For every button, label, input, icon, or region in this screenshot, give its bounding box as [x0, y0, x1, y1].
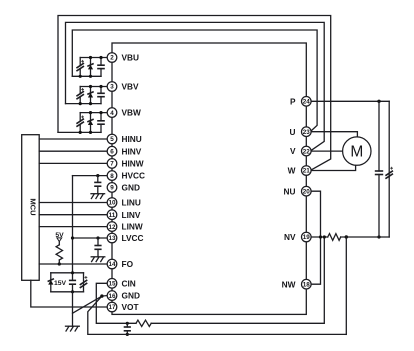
- svg-text:CIN: CIN: [122, 278, 136, 288]
- capacitor electrolytic C5 (VBW bootstrap): [76, 113, 84, 133]
- pin 12 LINW: [107, 222, 117, 232]
- svg-text:10: 10: [108, 200, 116, 207]
- svg-text:VBW: VBW: [122, 108, 142, 118]
- svg-text:7: 7: [110, 161, 114, 168]
- pin 8 HVCC: [107, 171, 117, 181]
- junction dots VBU group: [79, 56, 103, 78]
- capacitor electrolytic C1 (VBU bootstrap): [76, 58, 84, 77]
- wire shunt to power ground rail: [345, 237, 347, 334]
- svg-text:HINW: HINW: [122, 159, 144, 169]
- wire FO (MCU to pin 14): [39, 263, 107, 265]
- wire LINW (MCU to pin 12): [39, 226, 107, 228]
- wire NV shunt line right: [341, 236, 390, 238]
- svg-text:LVCC: LVCC: [122, 233, 144, 243]
- svg-text:9: 9: [110, 185, 114, 192]
- svg-text:GND: GND: [122, 183, 140, 193]
- svg-text:NV: NV: [284, 232, 296, 242]
- svg-text:VBV: VBV: [122, 82, 140, 92]
- svg-text:V: V: [290, 146, 296, 156]
- node FO pull-up junction: [58, 262, 61, 265]
- capacitor C8 (LVCC decoupling): [94, 238, 101, 257]
- svg-text:11: 11: [109, 212, 116, 219]
- wire U phase (pin 23 to motor): [311, 132, 357, 137]
- svg-text:8: 8: [110, 173, 114, 180]
- svg-text:MCU: MCU: [28, 198, 37, 216]
- svg-text:15: 15: [108, 281, 116, 288]
- wire VBW group bottom rail: [58, 131, 101, 133]
- svg-text:21: 21: [303, 168, 311, 175]
- pin 2 VBU: [107, 53, 117, 63]
- wire LINV (MCU to pin 11): [39, 214, 107, 216]
- svg-text:W: W: [288, 166, 296, 176]
- svg-text:LINW: LINW: [122, 222, 143, 232]
- pin 19 NV: [302, 232, 312, 242]
- capacitor C4 (VBV bootstrap): [97, 87, 105, 104]
- 15V source bottom rail: [51, 291, 84, 293]
- svg-text:HVCC: HVCC: [122, 171, 146, 181]
- MCU block: [22, 135, 40, 281]
- pin 6 HINV: [107, 146, 117, 156]
- svg-text:U: U: [290, 127, 296, 137]
- svg-text:13: 13: [108, 235, 116, 242]
- pin 14 FO: [107, 259, 117, 269]
- pin 21 W: [302, 166, 312, 176]
- svg-text:VBU: VBU: [122, 53, 140, 63]
- junction dots VBW group: [79, 111, 103, 134]
- svg-text:16: 16: [108, 293, 116, 300]
- svg-text:VOT: VOT: [122, 302, 139, 312]
- wire LVCC (pin 13 to 15V rail): [73, 237, 108, 239]
- wire VBV group bottom rail: [66, 103, 102, 105]
- svg-text:GND: GND: [122, 291, 140, 301]
- pin 11 LINV: [107, 210, 117, 220]
- wire P bus (pin 24 to DC bus): [311, 100, 389, 102]
- pin 17 VOT: [107, 302, 117, 312]
- svg-text:23: 23: [303, 129, 311, 136]
- capacitor C9 (15V source): [69, 273, 76, 292]
- node 15V box bottom junction: [71, 290, 74, 293]
- svg-text:HINV: HINV: [122, 146, 142, 156]
- ground (HVCC decoupling): [91, 194, 105, 199]
- capacitor electrolytic C10 (15V source): [80, 273, 88, 292]
- svg-text:LINV: LINV: [122, 210, 141, 220]
- wire NU-NW tie (pin 20 to pin 18): [311, 191, 320, 284]
- capacitor electrolytic C13 (DC bus): [385, 101, 393, 237]
- wire CIN sense to shunt junction: [151, 237, 324, 323]
- wire VBU group bottom rail: [72, 75, 101, 77]
- wire HINV (MCU to pin 6): [39, 150, 107, 152]
- node bus cap top junction: [377, 100, 380, 103]
- pin 4 VBW: [107, 108, 117, 118]
- wire pin 16 stub: [102, 295, 107, 298]
- svg-text:15V: 15V: [54, 280, 67, 287]
- resistor R1 (FO pull-up): [56, 242, 62, 265]
- pin 15 CIN: [107, 279, 117, 289]
- pin 22 V: [302, 146, 312, 156]
- capacitor C6 (VBW bootstrap): [97, 113, 105, 133]
- node bus cap bottom junction: [377, 235, 380, 238]
- wire 15V source to ground: [72, 292, 74, 326]
- svg-text:3: 3: [110, 84, 114, 91]
- zener diode D4 15V: [48, 273, 54, 292]
- 15V source top rail: [51, 272, 84, 274]
- pin 5 HINU: [107, 134, 117, 144]
- svg-text:22: 22: [303, 148, 311, 155]
- svg-text:17: 17: [108, 304, 116, 311]
- wire HVCC (pin 8 to 15V rail): [73, 175, 108, 177]
- pin 10 LINU: [107, 198, 117, 208]
- ground (LVCC decoupling): [91, 257, 105, 262]
- wire W phase (pin 21 to motor): [311, 165, 356, 170]
- capacitor C11 (CIN filter): [124, 323, 131, 334]
- svg-text:5: 5: [110, 136, 114, 143]
- wire VBV group top rail: [80, 86, 107, 88]
- capacitor C12 (DC bus snubber): [375, 101, 383, 237]
- pin 24 P: [302, 97, 312, 107]
- capacitor C7 (HVCC decoupling): [94, 176, 101, 194]
- node CIN riser on NV line: [323, 235, 326, 238]
- wire bootstrap V return (VBV group bottom to pin 22 V): [66, 22, 325, 151]
- IPM package outline U1: [112, 43, 306, 314]
- svg-text:P: P: [290, 96, 296, 106]
- node LVCC rail junction: [71, 236, 74, 239]
- svg-text:12: 12: [108, 224, 116, 231]
- wire CIN sense (pin 15 left, down, right to shunt riser): [96, 283, 136, 323]
- node shunt right junction: [345, 235, 348, 238]
- svg-text:4: 4: [110, 110, 114, 117]
- node 15V box top junction: [71, 271, 74, 274]
- node GND star point: [100, 294, 103, 297]
- node NU tie on NV line: [319, 235, 322, 238]
- svg-text:2: 2: [110, 55, 114, 62]
- wire HINU (MCU to pin 5): [39, 138, 107, 140]
- zener diode D1 (VBU bootstrap): [87, 58, 93, 77]
- svg-text:FO: FO: [122, 259, 134, 269]
- wire VBU group top rail: [80, 57, 107, 59]
- wire HINW (MCU to pin 7): [39, 162, 107, 164]
- svg-text:NW: NW: [282, 279, 296, 289]
- svg-text:M: M: [350, 144, 363, 161]
- node CIN filter cap bottom: [126, 333, 129, 336]
- wire LINU (MCU to pin 10): [39, 202, 107, 204]
- svg-text:14: 14: [108, 261, 116, 268]
- svg-text:24: 24: [303, 99, 311, 106]
- wire power ground rail: [88, 296, 347, 334]
- wire bootstrap W return (VBW group bottom to pin 21 W): [58, 16, 331, 171]
- capacitor C2 (VBU bootstrap): [97, 58, 105, 77]
- wire V phase (pin 22 to motor): [311, 150, 343, 152]
- resistor R3 shunt: [328, 234, 341, 241]
- svg-text:LINU: LINU: [122, 198, 141, 208]
- pin 7 HINW: [107, 159, 117, 169]
- pin 3 VBV: [107, 82, 117, 92]
- wire 15V supply rail (HVCC/LVCC down to 15V source): [72, 176, 74, 273]
- pin 16 GND: [107, 291, 117, 301]
- zener diode D3 (VBW bootstrap): [87, 113, 93, 133]
- resistor R2 (CIN filter): [136, 320, 151, 326]
- svg-text:18: 18: [303, 281, 311, 288]
- node HVCC decoupling tap: [96, 174, 99, 177]
- pin 9 GND: [107, 183, 117, 193]
- pin 20 NU: [302, 186, 312, 196]
- pin 23 U: [302, 127, 312, 137]
- svg-text:19: 19: [303, 234, 311, 241]
- node CIN filter cap top: [126, 322, 129, 325]
- wire pin 16 GND to supply ground: [73, 296, 102, 313]
- node LVCC decoupling tap: [96, 236, 99, 239]
- wire bootstrap U return (VBU group bottom to pin 23 U): [72, 30, 317, 132]
- motor M1: [343, 137, 371, 165]
- 5V supply arrow: [57, 238, 62, 242]
- pin 13 LVCC: [107, 233, 117, 243]
- capacitor electrolytic C3 (VBV bootstrap): [76, 87, 84, 104]
- svg-text:20: 20: [303, 188, 311, 195]
- svg-text:HINU: HINU: [122, 134, 142, 144]
- svg-text:6: 6: [110, 148, 114, 155]
- junction dots VBV group: [79, 85, 103, 105]
- svg-text:NU: NU: [284, 186, 296, 196]
- pin 18 NW: [302, 279, 312, 289]
- wire VOT (MCU bottom to pin 17): [31, 280, 107, 307]
- zener diode D2 (VBV bootstrap): [87, 87, 93, 104]
- wire VBW group top rail: [80, 112, 107, 114]
- ground (15V source): [66, 326, 80, 331]
- wire NV shunt line (pin 19 to right bus): [311, 236, 328, 238]
